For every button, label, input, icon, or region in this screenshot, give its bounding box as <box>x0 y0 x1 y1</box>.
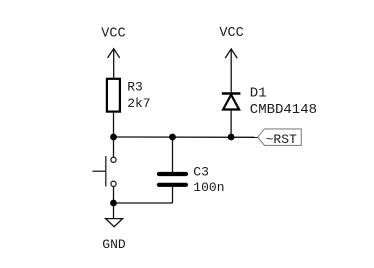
junction node cap/main <box>169 134 176 141</box>
power symbol VCC right (arrow) <box>225 49 237 92</box>
svg-text:2k7: 2k7 <box>127 96 150 111</box>
wire cap top <box>172 137 174 172</box>
junction node switch/cap bottom <box>110 200 117 207</box>
svg-text:~RST: ~RST <box>266 132 297 147</box>
wire cap bottom <box>172 187 174 203</box>
svg-text:VCC: VCC <box>219 26 243 41</box>
diode D1 <box>222 94 241 110</box>
junction node resistor/main <box>110 134 117 141</box>
wire resistor bottom <box>113 113 115 137</box>
svg-text:D1: D1 <box>250 86 267 102</box>
svg-text:R3: R3 <box>127 80 143 95</box>
wire to switch top contact <box>113 137 115 157</box>
svg-text:CMBD4148: CMBD4148 <box>250 102 317 118</box>
wire main horizontal <box>114 136 258 138</box>
wire bottom horizontal <box>114 202 173 204</box>
ground GND symbol <box>106 219 123 227</box>
svg-text:GND: GND <box>102 237 126 252</box>
capacitor C3 <box>159 174 186 185</box>
net label ~RST flag <box>258 129 302 146</box>
svg-text:C3: C3 <box>193 165 209 180</box>
junction node diode/main <box>228 134 235 141</box>
wire switch bottom contact <box>113 186 115 203</box>
resistor R3 <box>107 79 120 112</box>
power symbol VCC left (arrow) <box>108 49 120 78</box>
svg-text:100n: 100n <box>193 180 224 195</box>
switch SW push button <box>92 156 116 186</box>
wire diode bottom <box>230 110 232 138</box>
svg-text:VCC: VCC <box>101 26 125 41</box>
wire to ground <box>113 203 115 219</box>
